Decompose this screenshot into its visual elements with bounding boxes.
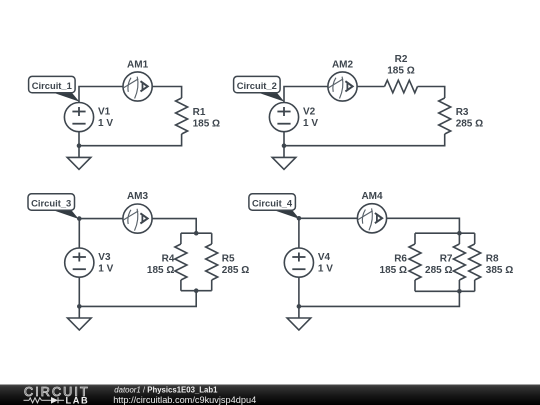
svg-text:LAB: LAB xyxy=(66,395,90,405)
svg-text:R2: R2 xyxy=(395,54,408,65)
svg-text:AM4: AM4 xyxy=(361,191,383,202)
svg-text:V1: V1 xyxy=(98,106,111,117)
svg-text:1 V: 1 V xyxy=(318,264,333,275)
svg-text:285 Ω: 285 Ω xyxy=(222,265,249,276)
svg-text:V2: V2 xyxy=(303,106,316,117)
svg-text:R7: R7 xyxy=(440,254,453,265)
svg-text:R4: R4 xyxy=(162,254,175,265)
svg-text:http://circuitlab.com/c9kuvjsp: http://circuitlab.com/c9kuvjsp4dpu4 xyxy=(113,395,256,405)
svg-text:V3: V3 xyxy=(98,252,111,263)
svg-text:385 Ω: 385 Ω xyxy=(486,265,513,276)
svg-text:185 Ω: 185 Ω xyxy=(193,118,220,129)
svg-text:AM2: AM2 xyxy=(332,59,354,70)
svg-text:V4: V4 xyxy=(318,252,331,263)
svg-text:1 V: 1 V xyxy=(98,118,113,129)
svg-text:1 V: 1 V xyxy=(303,118,318,129)
svg-text:AM1: AM1 xyxy=(127,59,149,70)
svg-text:AM3: AM3 xyxy=(127,191,149,202)
svg-text:R3: R3 xyxy=(456,107,469,118)
svg-text:285 Ω: 285 Ω xyxy=(425,265,452,276)
svg-text:R6: R6 xyxy=(394,254,407,265)
svg-text:datoor1 / Physics1E03_Lab1: datoor1 / Physics1E03_Lab1 xyxy=(114,385,218,394)
svg-text:Circuit_4: Circuit_4 xyxy=(252,197,293,208)
svg-text:185 Ω: 185 Ω xyxy=(147,265,174,276)
svg-text:R5: R5 xyxy=(222,254,235,265)
svg-text:Circuit_1: Circuit_1 xyxy=(32,80,72,91)
svg-text:Circuit_2: Circuit_2 xyxy=(237,80,277,91)
svg-text:185 Ω: 185 Ω xyxy=(387,65,414,76)
svg-text:R8: R8 xyxy=(486,254,499,265)
svg-text:285 Ω: 285 Ω xyxy=(456,118,483,129)
svg-text:185 Ω: 185 Ω xyxy=(380,265,407,276)
svg-text:R1: R1 xyxy=(193,107,206,118)
svg-text:1 V: 1 V xyxy=(98,264,113,275)
svg-text:Circuit_3: Circuit_3 xyxy=(31,197,71,208)
